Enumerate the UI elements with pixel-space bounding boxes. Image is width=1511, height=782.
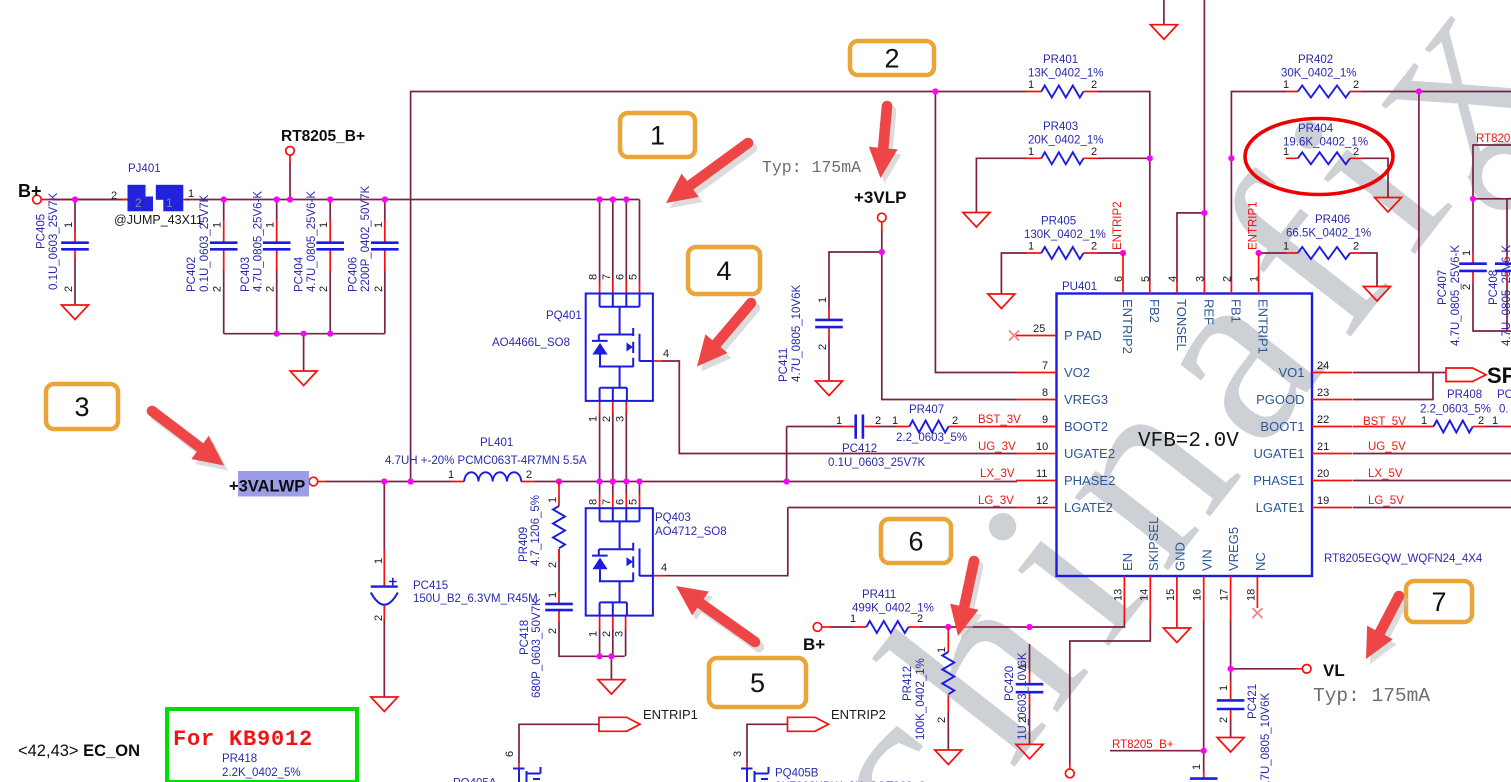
- junction PR402 / VO1 drop: [1416, 88, 1422, 94]
- junction FB2 / PR403: [1147, 155, 1153, 161]
- no-connect X on P PAD: [1009, 331, 1019, 341]
- wire REF/TONSEL from top: [1177, 0, 1204, 282]
- wire PQ401 drain drops: [600, 200, 640, 283]
- arrow 5: [676, 586, 764, 652]
- svg-text:1: 1: [1017, 664, 1029, 670]
- svg-text:PC421: PC421: [1247, 684, 1259, 719]
- svg-text:4.7U_0805_25V6-K: 4.7U_0805_25V6-K: [253, 191, 265, 292]
- arrow 2: [869, 101, 902, 183]
- label PC402: [186, 194, 211, 292]
- junction +3VLP / PC411: [879, 249, 885, 255]
- svg-text:2: 2: [111, 190, 117, 202]
- svg-text:13: 13: [1112, 589, 1124, 601]
- svg-text:PR406: PR406: [1315, 214, 1350, 226]
- red ellipse around PR404: [1245, 119, 1393, 195]
- svg-text:LGATE1: LGATE1: [1256, 500, 1305, 515]
- ground PC421: [1217, 738, 1244, 753]
- junction PQ403 source rail / ground stem: [608, 653, 614, 659]
- svg-text:2: 2: [1218, 717, 1230, 723]
- svg-text:1: 1: [1492, 415, 1498, 427]
- svg-text:1: 1: [373, 222, 385, 228]
- label PR409: [518, 495, 542, 566]
- capacitor PC404: [316, 220, 344, 271]
- svg-text:1: 1: [212, 222, 224, 228]
- capacitor PC406: [371, 220, 399, 271]
- svg-text:+3VALWP: +3VALWP: [229, 478, 305, 496]
- svg-text:6: 6: [504, 751, 516, 757]
- ground PR403: [963, 213, 990, 228]
- svg-text:14: 14: [1138, 589, 1150, 601]
- svg-text:15: 15: [1165, 589, 1177, 601]
- arrow 3: [147, 406, 228, 471]
- svg-text:2: 2: [1221, 276, 1233, 282]
- resistor PR403: [1026, 152, 1099, 164]
- svg-text:1: 1: [588, 416, 600, 422]
- resistor PR409 (vertical): [553, 482, 565, 562]
- junction LX rail / FET pin column 3: [623, 478, 629, 484]
- svg-text:UGATE2: UGATE2: [1064, 446, 1115, 461]
- svg-text:VFB=2.0V: VFB=2.0V: [1138, 430, 1239, 453]
- wire PC405 branch: [74, 200, 76, 306]
- terminal VL: [1295, 668, 1302, 670]
- svg-text:BOOT2: BOOT2: [1064, 419, 1108, 434]
- label PC418: [519, 598, 543, 698]
- svg-text:1: 1: [588, 631, 600, 637]
- svg-text:130K_0402_1%: 130K_0402_1%: [1024, 229, 1106, 241]
- svg-text:PL401: PL401: [480, 437, 513, 449]
- svg-text:2: 2: [1353, 241, 1359, 253]
- svg-text:GND: GND: [1173, 542, 1188, 571]
- svg-text:VO1: VO1: [1278, 365, 1304, 380]
- svg-text:2: 2: [875, 415, 881, 427]
- svg-text:2: 2: [547, 628, 559, 634]
- wire PC406 branch: [384, 200, 386, 334]
- svg-text:1: 1: [547, 592, 559, 598]
- svg-text:2200P_0402_50V7K: 2200P_0402_50V7K: [360, 186, 372, 292]
- svg-text:4.7U_0805_25V6-K: 4.7U_0805_25V6-K: [306, 191, 318, 292]
- svg-text:RT8205EGQW_WQFN24_4X4: RT8205EGQW_WQFN24_4X4: [1324, 553, 1483, 565]
- svg-text:PQ401: PQ401: [546, 310, 582, 322]
- ground top REF: [1150, 25, 1177, 40]
- arrow 7: [1366, 591, 1408, 664]
- svg-text:<42,43> EC_ON: <42,43> EC_ON: [18, 742, 140, 760]
- flag ENTRIP2: [788, 717, 829, 731]
- svg-text:8: 8: [1042, 387, 1048, 399]
- ground cap bank: [290, 371, 317, 386]
- svg-text:2: 2: [373, 615, 385, 621]
- pin names left: [1064, 328, 1115, 515]
- svg-text:2: 2: [63, 286, 75, 292]
- wire PR412 drop: [947, 712, 949, 750]
- inductor PL401: [450, 472, 536, 481]
- svg-text:2: 2: [212, 286, 224, 292]
- wire PQ405A gate from ENTRIP1: [519, 724, 599, 763]
- ground chip GND pin15: [1176, 576, 1178, 628]
- WATERMARK: [745, 0, 1511, 782]
- svg-text:PC405: PC405: [36, 214, 48, 249]
- svg-text:2: 2: [1091, 241, 1097, 253]
- svg-text:1: 1: [817, 297, 829, 303]
- svg-text:4.7U_0805_25V6-K: 4.7U_0805_25V6-K: [1450, 245, 1462, 346]
- svg-text:2: 2: [1091, 79, 1097, 91]
- svg-text:RT8205_B+: RT8205_B+: [1112, 739, 1174, 751]
- svg-text:2: 2: [1353, 146, 1359, 158]
- svg-text:PJ401: PJ401: [128, 163, 161, 175]
- transistor PQ405B (partial at bottom edge): [741, 763, 769, 782]
- svg-text:BST_3V: BST_3V: [978, 414, 1021, 426]
- svg-text:2: 2: [318, 286, 330, 292]
- svg-text:18: 18: [1245, 589, 1257, 601]
- svg-text:4: 4: [663, 348, 669, 360]
- junction PQ403 source rail / pin1: [597, 653, 603, 659]
- junction node dots: [72, 88, 1476, 753]
- pin numbers PQ401 top: [588, 274, 640, 280]
- svg-text:PR409: PR409: [518, 527, 530, 562]
- pin names right: [1253, 365, 1304, 515]
- junction VREG5 / VL / PC421: [1228, 666, 1234, 672]
- wire B+ rail to PJ401: [42, 199, 128, 201]
- svg-text:4.7_1206_5%: 4.7_1206_5%: [530, 495, 542, 566]
- svg-text:2.2_0603_5%: 2.2_0603_5%: [896, 432, 967, 444]
- junction LX rail / PC412: [784, 478, 790, 484]
- svg-text:BOOT1: BOOT1: [1260, 419, 1304, 434]
- svg-text:4.7U_0805_10V6K: 4.7U_0805_10V6K: [1260, 692, 1272, 782]
- svg-text:1: 1: [1028, 79, 1034, 91]
- svg-text:1: 1: [63, 222, 75, 228]
- label PC411: [778, 284, 803, 382]
- svg-text:4.7U_0805_25V6-K: 4.7U_0805_25V6-K: [1501, 245, 1511, 346]
- svg-text:1: 1: [1191, 764, 1203, 770]
- svg-text:PR418: PR418: [222, 753, 257, 765]
- svg-text:B+: B+: [803, 635, 825, 654]
- wire LG_5V row: [1353, 507, 1511, 509]
- terminal RT8205_B+: [289, 155, 291, 163]
- svg-text:0.1U_0603_25V7K: 0.1U_0603_25V7K: [48, 192, 60, 290]
- transistor PQ405A (partial at bottom edge): [513, 763, 541, 782]
- wire VO2 drop to pin7: [935, 92, 1017, 373]
- ground PC415: [371, 697, 398, 712]
- svg-text:VREG5: VREG5: [1226, 527, 1241, 571]
- svg-text:19: 19: [1317, 495, 1329, 507]
- pin numbers PQ403 bottom: [588, 631, 626, 637]
- svg-text:6: 6: [1113, 276, 1125, 282]
- capacitor PC403: [263, 220, 291, 271]
- junction gnd rail / ground stem: [301, 331, 307, 337]
- resistor PR412 (vertical): [942, 627, 954, 712]
- pin numbers right: [1317, 360, 1329, 507]
- wire UG_5V row: [1353, 453, 1511, 455]
- svg-text:PC418: PC418: [519, 620, 531, 655]
- svg-text:23: 23: [1317, 387, 1329, 399]
- svg-text:1: 1: [1461, 250, 1473, 256]
- svg-text:PR412: PR412: [902, 666, 914, 701]
- svg-text:2: 2: [601, 416, 613, 422]
- label PC404: [294, 191, 319, 292]
- svg-text:1: 1: [836, 415, 842, 427]
- svg-text:PC420: PC420: [1004, 666, 1016, 701]
- svg-text:1: 1: [1028, 146, 1034, 158]
- wire PR402 pin2 to right edge: [1361, 91, 1511, 93]
- ground PR406: [1364, 287, 1391, 302]
- wire VO1 to SPOK flag: [1353, 372, 1446, 374]
- svg-text:PC408: PC408: [1488, 270, 1500, 305]
- pin stubs right: [1312, 373, 1353, 508]
- svg-text:7: 7: [601, 274, 613, 280]
- svg-text:21: 21: [1317, 441, 1329, 453]
- svg-text:2: 2: [526, 469, 532, 481]
- svg-text:LX_5V: LX_5V: [1368, 468, 1403, 480]
- ground PC420: [1016, 744, 1043, 759]
- svg-text:EN: EN: [1120, 553, 1135, 571]
- svg-text:B+: B+: [18, 181, 42, 201]
- junction B+ rail / PC405: [72, 196, 78, 202]
- svg-text:PC403: PC403: [240, 257, 252, 292]
- svg-text:0.1U_0603_25V7K: 0.1U_0603_25V7K: [199, 194, 211, 292]
- wire +3VALWP / LX rail: [326, 481, 1017, 483]
- junction B+ rail / PC402: [221, 196, 227, 202]
- terminal +3VALWP: [318, 481, 327, 483]
- svg-text:7: 7: [1042, 360, 1048, 372]
- capacitor PC405: [61, 231, 89, 259]
- junction REF / TONSEL: [1201, 210, 1207, 216]
- svg-text:17: 17: [1219, 589, 1231, 601]
- svg-text:2: 2: [547, 562, 559, 568]
- svg-text:Typ: 175mA: Typ: 175mA: [1313, 685, 1430, 707]
- svg-text:AO4466L_SO8: AO4466L_SO8: [492, 337, 570, 349]
- svg-text:PR403: PR403: [1043, 121, 1078, 133]
- wire +3VLP down to VREG3: [882, 230, 1017, 400]
- callout box 7: [1406, 581, 1473, 624]
- wire BST_5V to PR408: [1353, 426, 1418, 428]
- label PC407: [1437, 245, 1462, 346]
- svg-text:SPO: SPO: [1487, 363, 1511, 388]
- junction ENTRIP1 / PR406: [1256, 250, 1262, 256]
- svg-text:2: 2: [601, 631, 613, 637]
- svg-text:PC411: PC411: [778, 348, 790, 382]
- wire PR405 pin2 to ENTRIP2 node: [1098, 252, 1123, 254]
- wire BST_3V net: PC412/PR407 row: [787, 426, 896, 428]
- wire PR406 pin2 to ground: [1361, 253, 1377, 287]
- wire PR403 pin2: [1098, 157, 1150, 159]
- svg-text:0.1U_0603_25V7K: 0.1U_0603_25V7K: [828, 457, 926, 469]
- svg-text:30K_0402_1%: 30K_0402_1%: [1281, 68, 1356, 80]
- svg-text:PR408: PR408: [1447, 389, 1482, 401]
- no-connect X on pin18 NC: [1252, 608, 1262, 618]
- svg-text:7: 7: [601, 499, 613, 505]
- junction B+ rail / PQ401 pin7: [610, 196, 616, 202]
- svg-text:6: 6: [614, 274, 626, 280]
- svg-text:20: 20: [1317, 468, 1329, 480]
- resistor PR411: [854, 621, 921, 633]
- junction ENTRIP2 / PR405: [1120, 250, 1126, 256]
- svg-text:UG_5V: UG_5V: [1368, 441, 1406, 453]
- svg-text:SKIPSEL: SKIPSEL: [1146, 517, 1161, 571]
- capacitor PC408: [1495, 253, 1511, 283]
- svg-text:NC: NC: [1253, 552, 1268, 571]
- svg-text:2: 2: [1478, 415, 1484, 427]
- junction B+ rail / PC404: [327, 196, 333, 202]
- wire PR403 pin1 to ground: [976, 158, 1026, 212]
- svg-text:2: 2: [1461, 284, 1473, 290]
- resistor PR408: [1418, 421, 1511, 433]
- terminal +3VLP: [881, 222, 883, 231]
- svg-text:VIN: VIN: [1199, 549, 1214, 571]
- svg-text:PGOOD: PGOOD: [1256, 392, 1304, 407]
- svg-text:ENTRIP1: ENTRIP1: [1248, 201, 1260, 250]
- wire PC415 branch: [383, 482, 385, 698]
- junction LX rail / FET pin column 2: [610, 478, 616, 484]
- junction B+ rail / PC406: [382, 196, 388, 202]
- wire VIN to RT8205_B+: [1110, 620, 1204, 771]
- svg-text:5: 5: [628, 274, 640, 280]
- ground PR404: [1375, 198, 1402, 213]
- label PC406: [348, 186, 373, 292]
- svg-text:1: 1: [1028, 241, 1034, 253]
- svg-text:1: 1: [373, 558, 385, 564]
- svg-text:1: 1: [188, 188, 194, 200]
- svg-text:LG_5V: LG_5V: [1368, 495, 1404, 507]
- junction gnd rail / PC403: [274, 331, 280, 337]
- wire RT8205_B+ terminal drop: [289, 162, 291, 200]
- svg-text:LX_3V: LX_3V: [980, 468, 1015, 480]
- svg-text:2.2K_0402_5%: 2.2K_0402_5%: [222, 767, 301, 779]
- svg-text:BST_5V: BST_5V: [1363, 416, 1406, 428]
- svg-text:5: 5: [1140, 276, 1152, 282]
- svg-text:PR405: PR405: [1041, 216, 1076, 228]
- svg-text:VREG3: VREG3: [1064, 392, 1108, 407]
- svg-text:VO2: VO2: [1064, 365, 1090, 380]
- capacitor PC402: [210, 220, 238, 271]
- wire PR404 pin2 to ground: [1361, 158, 1388, 197]
- svg-text:PC407: PC407: [1437, 270, 1449, 305]
- svg-text:PR401: PR401: [1043, 54, 1078, 66]
- svg-text:4.7UH +-20% PCMC063T-4R7MN 5.5: 4.7UH +-20% PCMC063T-4R7MN 5.5A: [385, 455, 587, 467]
- svg-text:1: 1: [892, 415, 898, 427]
- svg-text:+3VLP: +3VLP: [854, 188, 906, 207]
- svg-text:2: 2: [373, 286, 385, 292]
- pin names top (rotated downward): [1120, 299, 1271, 354]
- svg-text:PC404: PC404: [294, 256, 306, 292]
- capacitor PC418: [545, 592, 573, 623]
- wire PR406 pin1 to ENTRIP1 node: [1259, 252, 1286, 254]
- svg-text:4.7U_0805_10V6K: 4.7U_0805_10V6K: [791, 284, 803, 382]
- wire EN/B+ row: [830, 621, 1124, 627]
- svg-text:AO4712_SO8: AO4712_SO8: [655, 526, 727, 538]
- svg-text:2: 2: [1353, 79, 1359, 91]
- wire cap bank bottom rail: [224, 334, 385, 371]
- resistor PR405: [1026, 247, 1099, 259]
- svg-text:LGATE2: LGATE2: [1064, 500, 1113, 515]
- svg-text:UG_3V: UG_3V: [978, 441, 1016, 453]
- label PC405 values: [36, 192, 61, 290]
- svg-text:150U_B2_6.3VM_R45M: 150U_B2_6.3VM_R45M: [413, 593, 538, 605]
- terminal B+: [33, 195, 42, 204]
- pin stubs left: [1016, 336, 1057, 508]
- op-amp U1: regulator PU401 RT8205 body: [1057, 294, 1313, 577]
- svg-text:ENTRIP2: ENTRIP2: [1120, 299, 1135, 354]
- svg-text:RT820: RT820: [1476, 133, 1510, 145]
- ground PQ403 source rail: [598, 680, 625, 695]
- resistor PR406: [1286, 247, 1362, 259]
- svg-text:VL: VL: [1323, 661, 1345, 680]
- svg-text:2: 2: [1017, 717, 1029, 723]
- svg-text:2: 2: [817, 344, 829, 350]
- svg-text:2: 2: [936, 717, 948, 723]
- wire PR409 PC418 snubber: [559, 549, 625, 680]
- pin stubs top: [1123, 253, 1259, 294]
- wire PQ403 gate to LGATE2: [666, 508, 1017, 576]
- callout box 4: [688, 247, 762, 296]
- wire top ground stem: [1163, 0, 1165, 25]
- label PC408: [1488, 245, 1511, 346]
- wire PR402 drop to VO1: [1418, 92, 1420, 373]
- junction LX rail / PR409: [556, 478, 562, 484]
- svg-text:1: 1: [1421, 415, 1427, 427]
- label PC421: [1247, 684, 1272, 782]
- junction +3VALWP rail / VO2 sense: [408, 478, 414, 484]
- svg-text:ENTRIP2: ENTRIP2: [831, 707, 886, 722]
- svg-text:3: 3: [1194, 276, 1206, 282]
- svg-text:2: 2: [1091, 146, 1097, 158]
- wire PQ401 gate to UGATE2: [662, 361, 1018, 454]
- svg-text:1: 1: [1249, 276, 1261, 282]
- svg-text:Typ: 175mA: Typ: 175mA: [762, 158, 861, 177]
- svg-text:66.5K_0402_1%: 66.5K_0402_1%: [1286, 228, 1371, 240]
- capacitor PC421: [1217, 681, 1245, 719]
- label PC420: [1004, 652, 1029, 740]
- svg-text:PC406: PC406: [348, 257, 360, 292]
- junction LX rail / FET pin column 1: [597, 478, 603, 484]
- svg-text:1: 1: [166, 196, 173, 210]
- wire FB1 rail: [1231, 92, 1286, 283]
- wire PC403 branch: [276, 200, 278, 334]
- svg-text:RT8205_B+: RT8205_B+: [281, 128, 365, 145]
- svg-text:3: 3: [732, 751, 744, 757]
- svg-text:FB2: FB2: [1147, 299, 1162, 323]
- svg-text:20K_0402_1%: 20K_0402_1%: [1028, 135, 1103, 147]
- svg-text:2: 2: [952, 415, 958, 427]
- junction B+ rail / PC403: [274, 196, 280, 202]
- svg-text:1: 1: [650, 121, 665, 151]
- svg-text:PHASE1: PHASE1: [1253, 473, 1304, 488]
- svg-text:13K_0402_1%: 13K_0402_1%: [1028, 68, 1103, 80]
- svg-text:PR404: PR404: [1298, 123, 1334, 135]
- svg-text:PQ405A: PQ405A: [453, 778, 497, 782]
- svg-text:3: 3: [614, 631, 626, 637]
- svg-text:P PAD: P PAD: [1064, 328, 1102, 343]
- resistor PR407: [896, 421, 1057, 433]
- ground PR412: [935, 750, 962, 765]
- wire VREG5 to VL and PC421: [1231, 620, 1296, 738]
- junction VO2 net: [932, 88, 938, 94]
- svg-text:0.: 0.: [1499, 404, 1509, 416]
- svg-text:22: 22: [1317, 414, 1329, 426]
- pin numbers bottom (rotated): [1112, 589, 1257, 601]
- svg-text:1: 1: [1283, 241, 1289, 253]
- svg-text:10: 10: [1036, 441, 1048, 453]
- svg-text:11: 11: [1036, 468, 1047, 480]
- capacitor PC415 (polarized): [371, 549, 398, 621]
- node +3VALWP (highlighted): [238, 471, 309, 497]
- svg-text:1: 1: [265, 222, 277, 228]
- svg-text:6: 6: [908, 527, 923, 557]
- svg-text:1: 1: [936, 647, 948, 653]
- svg-text:8: 8: [588, 274, 600, 280]
- svg-text:1: 1: [1218, 685, 1230, 691]
- flag SPOK: [1446, 368, 1486, 382]
- svg-text:1: 1: [318, 222, 330, 228]
- svg-text:12: 12: [1036, 495, 1048, 507]
